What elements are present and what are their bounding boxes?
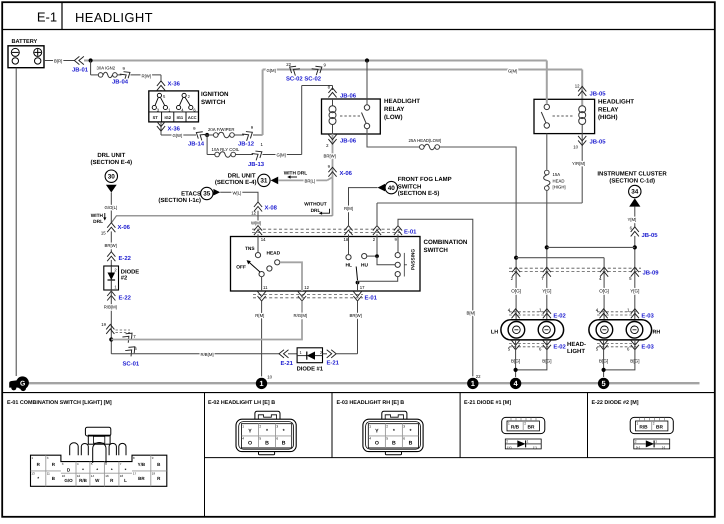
fuse 15A HEAD HIGH [544, 170, 566, 190]
svg-text:19: 19 [152, 472, 156, 476]
svg-text:RH: RH [653, 330, 661, 336]
connector E-22 upper [107, 252, 115, 262]
wire diode1 to pin17 column [336, 353, 358, 355]
wire R/B[M] horizontal diode row [111, 353, 280, 355]
svg-text:31: 31 [260, 178, 268, 185]
connector E-21 right [323, 353, 328, 355]
connector E-02 upper [508, 308, 567, 320]
svg-text:Y/R[M]: Y/R[M] [572, 161, 585, 166]
fuse 20A F/WIPER [205, 127, 245, 138]
svg-text:17: 17 [133, 472, 137, 476]
svg-text:DIODE #1: DIODE #1 [297, 365, 324, 372]
svg-text:*: * [37, 476, 39, 481]
svg-text:(HIGH): (HIGH) [598, 114, 618, 121]
connector E-01 top [252, 226, 417, 236]
svg-text:34: 34 [631, 189, 639, 196]
connector JB-05 upper [578, 86, 586, 96]
wire G[M] to low relay coil [263, 154, 302, 156]
E-01 connector pinout [31, 427, 167, 486]
wire battery to ground [15, 68, 17, 376]
svg-text:LH: LH [491, 330, 498, 336]
svg-text:B: B [282, 441, 286, 447]
connector SC-01 pin7 [122, 330, 135, 343]
svg-text:E-01: E-01 [365, 294, 378, 301]
svg-text:BR: BR [528, 424, 535, 430]
svg-text:Y[G]: Y[G] [630, 289, 639, 294]
svg-text:JB-05: JB-05 [590, 139, 607, 146]
svg-text:DRL: DRL [93, 219, 103, 225]
connector E-03 lower [596, 340, 655, 351]
svg-text:JB-01: JB-01 [72, 67, 89, 74]
connector X-36 upper [157, 81, 165, 91]
svg-text:JB-09: JB-09 [643, 270, 660, 277]
wire LOW relay to 25A fuse [367, 129, 419, 147]
wire battery output B[R] [44, 60, 75, 62]
svg-text:B: B [265, 441, 269, 447]
svg-text:O[G]: O[G] [511, 289, 521, 294]
headlight relay LOW [322, 98, 421, 134]
svg-text:HEAD: HEAD [553, 178, 565, 183]
svg-text:E-03: E-03 [641, 313, 654, 320]
svg-text:SWITCH: SWITCH [424, 247, 449, 254]
wire 25A fuse to headlight low beams [440, 147, 516, 320]
svg-text:10: 10 [267, 374, 272, 379]
svg-text:(LOW): (LOW) [384, 114, 403, 121]
svg-text:RELAY: RELAY [598, 106, 619, 113]
ignition switch [149, 91, 229, 122]
svg-text:1: 1 [637, 422, 639, 426]
headlight RH [589, 320, 660, 340]
svg-text:(SECTION E-5): (SECTION E-5) [398, 190, 440, 197]
svg-text:E-21 DIODE #1 [M]: E-21 DIODE #1 [M] [464, 400, 511, 406]
svg-text:HEADLIGHT: HEADLIGHT [598, 99, 634, 106]
headlight LH [491, 320, 564, 340]
svg-text:WITH DRL: WITH DRL [284, 170, 308, 176]
svg-text:[HIGH]: [HIGH] [553, 185, 566, 190]
connector E-02 lower [508, 340, 567, 351]
svg-text:SC-01: SC-01 [123, 361, 140, 368]
svg-text:E-22: E-22 [119, 294, 132, 301]
svg-text:E-22 DIODE #2 [M]: E-22 DIODE #2 [M] [592, 400, 639, 406]
svg-text:DRL UNIT: DRL UNIT [228, 173, 256, 180]
svg-text:1: 1 [508, 422, 510, 426]
svg-text:22: 22 [476, 374, 481, 379]
svg-text:6: 6 [403, 437, 405, 441]
fuse 10A RLY COIL [207, 135, 253, 157]
svg-text:19: 19 [101, 322, 106, 327]
fuse 30A IGN2 [91, 61, 122, 78]
svg-text:HEAD-: HEAD- [567, 341, 586, 348]
svg-text:L: L [124, 478, 127, 483]
headlight relay HIGH [534, 99, 634, 134]
ground point 4 [510, 378, 521, 389]
svg-text:E-21: E-21 [327, 360, 340, 367]
wire WITHOUT DRL jumper [111, 216, 332, 223]
svg-text:12: 12 [304, 285, 309, 290]
svg-text:HEADLIGHT: HEADLIGHT [384, 98, 420, 105]
svg-text:13: 13 [31, 472, 35, 476]
ground point 1 right [467, 378, 478, 389]
svg-text:WITH: WITH [91, 213, 104, 219]
svg-text:(SECTION E-4): (SECTION E-4) [215, 179, 257, 186]
svg-text:15: 15 [101, 230, 106, 235]
diode #1 [297, 348, 324, 373]
fuse 25A HEAD LOW [409, 138, 442, 150]
svg-text:HU: HU [361, 262, 368, 268]
svg-text:30: 30 [108, 173, 116, 180]
svg-text:2: 2 [635, 440, 637, 444]
svg-text:X-36: X-36 [168, 126, 181, 133]
svg-text:SWITCH: SWITCH [398, 183, 422, 190]
svg-text:BR: BR [656, 424, 663, 430]
svg-text:HL: HL [345, 262, 351, 268]
svg-text:E-03: E-03 [641, 344, 654, 351]
svg-text:G: G [20, 381, 25, 388]
svg-text:1: 1 [369, 424, 371, 428]
svg-text:HEADLIGHT: HEADLIGHT [75, 10, 153, 25]
svg-text:JB-14: JB-14 [188, 141, 205, 148]
connector SC-01 pin5 [125, 344, 138, 357]
svg-text:W: W [95, 478, 100, 483]
svg-text:1: 1 [471, 379, 475, 388]
svg-text:2: 2 [653, 422, 655, 426]
connector X-08 [254, 202, 262, 212]
wires B[G] RH to ground [599, 340, 640, 377]
svg-text:(SECTION E-4): (SECTION E-4) [90, 159, 132, 166]
wire bus row1 to HIGH relay switch [546, 61, 548, 105]
svg-text:Y/B: Y/B [138, 462, 146, 467]
svg-text:R/B: R/B [511, 424, 520, 430]
svg-text:JB-05: JB-05 [590, 91, 607, 98]
connector E-22 lower [107, 291, 115, 301]
bottom panel dividers [205, 393, 715, 517]
svg-text:COMBINATION: COMBINATION [424, 239, 468, 246]
svg-text:X-06: X-06 [118, 224, 131, 231]
svg-text:B[M]: B[M] [467, 311, 476, 316]
svg-text:4: 4 [369, 437, 371, 441]
svg-text:E-1: E-1 [37, 10, 57, 25]
wire BR[W] to diode 2 [110, 231, 112, 251]
svg-text:(-): (-) [662, 445, 665, 449]
junction Y to 15A [633, 245, 637, 249]
wire G[M] down to HIGH relay coil [581, 70, 583, 106]
WITH DRL annotation left [91, 213, 107, 225]
E-03 connector pinout [363, 411, 423, 455]
svg-text:40: 40 [388, 185, 396, 192]
svg-text:10: 10 [62, 474, 66, 478]
wire R/B[M] from diode 2 [110, 290, 112, 354]
svg-text:Y: Y [375, 429, 379, 435]
svg-text:5: 5 [386, 437, 388, 441]
svg-text:RELAY: RELAY [384, 106, 405, 113]
svg-text:Y: Y [248, 429, 252, 435]
svg-text:25A HEAD[LOW]: 25A HEAD[LOW] [409, 138, 442, 143]
svg-text:SC-02 SC-02: SC-02 SC-02 [286, 76, 322, 83]
svg-text:G[M]: G[M] [277, 153, 286, 158]
wire PASSING pin9 to ground [398, 219, 473, 376]
svg-text:3: 3 [276, 424, 278, 428]
svg-text:B[R]: B[R] [54, 58, 62, 63]
connector JB-06 lower [332, 134, 334, 216]
wire W[M] to combination switch [257, 211, 259, 226]
svg-text:*: * [82, 468, 84, 473]
svg-text:*: * [125, 468, 127, 473]
svg-text:BR: BR [138, 476, 145, 481]
junction R/G joins diode column [109, 337, 113, 341]
ground bus [16, 382, 700, 384]
wire WITH DRL to DRL unit 31 [327, 177, 332, 180]
svg-text:(+): (+) [507, 445, 511, 449]
connector SC-02 left [287, 64, 299, 76]
svg-text:(SECTION I-1c): (SECTION I-1c) [158, 197, 201, 204]
connector JB-01 [74, 56, 84, 64]
svg-text:X-06: X-06 [340, 170, 353, 177]
wire BR[W] pin17 to diode 1 [357, 301, 359, 354]
bottom panel separator [2, 392, 715, 394]
ground point 1 left [256, 378, 267, 389]
svg-text:DIODE: DIODE [121, 269, 139, 276]
wire down to RH low beam [603, 258, 605, 320]
svg-text:Y[M]: Y[M] [628, 217, 637, 222]
svg-text:1: 1 [259, 379, 263, 388]
svg-text:G[W]: G[W] [173, 133, 183, 138]
svg-text:R/B[M]: R/B[M] [201, 352, 214, 357]
connector SC-01 pin19 [106, 324, 114, 334]
svg-text:ETACS: ETACS [181, 191, 201, 198]
svg-text:E-21: E-21 [281, 360, 294, 367]
DRL unit 30 reference [90, 152, 132, 192]
svg-text:G[M]: G[M] [508, 69, 517, 74]
svg-text:O: O [375, 441, 379, 447]
title separator line [2, 29, 715, 31]
svg-text:E-02 HEADLIGHT LH [E] B: E-02 HEADLIGHT LH [E] B [208, 400, 275, 406]
svg-text:11: 11 [263, 285, 268, 290]
svg-text:Y[G]: Y[G] [542, 289, 551, 294]
svg-text:1: 1 [655, 440, 657, 444]
svg-text:E-01: E-01 [404, 229, 417, 236]
connector E-21 left [279, 350, 289, 358]
connector JB-06 upper [328, 88, 336, 98]
svg-text:E-02: E-02 [553, 313, 566, 320]
diode #2 [104, 266, 139, 290]
wire R[W] to ignition switch [131, 74, 162, 76]
svg-text:3: 3 [403, 424, 405, 428]
connector JB-05 lower [581, 134, 583, 203]
combination switch [231, 234, 468, 291]
svg-text:17: 17 [360, 285, 365, 290]
wire Y[M] cluster [634, 207, 636, 228]
wire R[M] fog to pin18 [349, 188, 378, 226]
svg-text:12: 12 [251, 211, 256, 216]
wire 15A fuse down to LH high beam [546, 191, 548, 320]
svg-text:R/B: R/B [79, 478, 88, 483]
svg-text:4: 4 [242, 437, 244, 441]
svg-text:X-36: X-36 [168, 81, 181, 88]
connector JB-12 [242, 129, 254, 141]
wire bus to LOW relay switch [365, 58, 369, 62]
junction at JB-14 [205, 133, 209, 137]
svg-text:IGNITION: IGNITION [201, 91, 229, 98]
svg-text:ACC: ACC [188, 115, 197, 120]
svg-text:O: O [248, 441, 252, 447]
svg-text:10: 10 [573, 145, 578, 150]
connector JB-06 cluster [631, 227, 639, 237]
DRL unit 31 reference [215, 173, 278, 187]
svg-text:JB-06: JB-06 [340, 138, 357, 145]
connector SC-02 right [312, 64, 324, 76]
svg-text:*: * [96, 468, 98, 473]
svg-text:JB-05: JB-05 [642, 232, 659, 239]
svg-text:E-03 HEADLIGHT RH [E] B: E-03 HEADLIGHT RH [E] B [337, 400, 405, 406]
svg-text:#2: #2 [121, 275, 127, 282]
E-02 connector pinout [236, 411, 296, 455]
wire HU pin2 to JB-05 [376, 203, 378, 226]
svg-text:2: 2 [386, 424, 388, 428]
ground symbol G [9, 376, 29, 391]
connector X-36 lower [160, 122, 162, 135]
svg-text:6: 6 [276, 437, 278, 441]
wire JB-12 up to SC-02 row [253, 134, 263, 136]
svg-text:R/B[M]: R/B[M] [104, 304, 117, 309]
svg-text:11: 11 [47, 472, 50, 476]
svg-text:(+): (+) [636, 445, 640, 449]
svg-text:E-01 COMBINATION SWITCH [LIGHT: E-01 COMBINATION SWITCH [LIGHT] [M] [7, 400, 112, 406]
svg-text:16: 16 [105, 474, 109, 478]
connector JB-14 [194, 129, 206, 141]
bus row2 G[M] [263, 69, 583, 71]
E-22 connector pinout [630, 417, 673, 449]
svg-text:LIGHT: LIGHT [567, 348, 585, 355]
wire G/O from DRL unit [110, 193, 112, 224]
svg-text:(-): (-) [533, 445, 536, 449]
svg-text:R[M]: R[M] [344, 206, 353, 211]
svg-text:BR[L]: BR[L] [305, 178, 316, 183]
svg-text:1: 1 [527, 440, 529, 444]
svg-text:14: 14 [91, 474, 95, 478]
svg-text:R[M]: R[M] [255, 313, 264, 318]
svg-text:(SECTION C-1d): (SECTION C-1d) [609, 178, 655, 185]
front fog lamp switch reference [378, 176, 452, 197]
svg-text:BR[W]: BR[W] [350, 313, 362, 318]
wires B[G] LH to ground [511, 340, 552, 377]
wire HIGH relay switch to 15A fuse [546, 134, 548, 170]
svg-text:B: B [409, 441, 413, 447]
svg-text:IG1: IG1 [177, 115, 184, 120]
svg-text:E-02: E-02 [553, 344, 566, 351]
svg-text:WITHOUT: WITHOUT [304, 202, 326, 208]
connector X-06 pin15 [107, 223, 115, 233]
svg-text:INSTRUMENT CLUSTER: INSTRUMENT CLUSTER [597, 170, 667, 177]
wire R/G[M] pin12 to SC-01 [111, 301, 302, 340]
title divider [61, 2, 63, 29]
connector JB-13 [252, 148, 264, 160]
ETACS reference [158, 187, 220, 204]
svg-text:SWITCH: SWITCH [201, 99, 226, 106]
svg-text:OFF: OFF [236, 265, 246, 271]
svg-text:TNS: TNS [245, 246, 255, 252]
wire Y[M] down to RH high beam [634, 236, 636, 320]
wire G[W] from ignition switch [161, 134, 196, 136]
svg-text:15A: 15A [553, 172, 561, 177]
svg-text:R/B: R/B [639, 424, 648, 430]
svg-text:2: 2 [506, 440, 508, 444]
svg-text:BATTERY: BATTERY [12, 39, 38, 45]
svg-text:30A IGN2: 30A IGN2 [97, 65, 116, 70]
svg-text:E-22: E-22 [119, 255, 132, 262]
connector E-01 bottom [253, 292, 378, 302]
svg-text:5: 5 [602, 379, 606, 388]
svg-text:B: B [392, 441, 396, 447]
svg-text:G[M]: G[M] [267, 68, 276, 73]
ground point 5 [598, 378, 609, 389]
svg-text:JB-13: JB-13 [248, 161, 265, 168]
svg-text:BR[W]: BR[W] [105, 243, 117, 248]
E-21 connector pinout [502, 417, 545, 449]
junction after JB-01 [89, 58, 93, 62]
svg-text:HEAD: HEAD [267, 251, 281, 257]
instrument cluster reference [597, 170, 667, 206]
svg-text:18: 18 [120, 474, 124, 478]
svg-text:5: 5 [259, 437, 261, 441]
svg-text:12: 12 [77, 474, 81, 478]
svg-text:IG2: IG2 [164, 115, 171, 120]
battery [8, 39, 44, 68]
svg-text:20A F/WIPER: 20A F/WIPER [208, 127, 235, 132]
wire R[M] pin11 to ground 1 [261, 301, 263, 377]
svg-text:BR[W]: BR[W] [324, 153, 336, 158]
svg-text:G/O[L]: G/O[L] [105, 205, 118, 210]
junction 25A feed split [514, 256, 518, 260]
svg-text:1: 1 [242, 424, 244, 428]
svg-text:12: 12 [575, 84, 580, 89]
svg-text:R[W]: R[W] [142, 74, 152, 79]
svg-text:2: 2 [259, 424, 261, 428]
svg-text:X-08: X-08 [265, 205, 278, 212]
svg-text:W[M]: W[M] [251, 220, 261, 225]
svg-text:2: 2 [524, 422, 526, 426]
svg-text:ST: ST [153, 115, 159, 120]
connector JB-09 [509, 267, 659, 281]
svg-text:14: 14 [261, 237, 266, 242]
svg-text:JB-12: JB-12 [238, 141, 255, 148]
svg-text:35: 35 [203, 191, 211, 198]
svg-text:*: * [111, 468, 113, 473]
svg-text:DRL UNIT: DRL UNIT [97, 152, 125, 159]
svg-text:FRONT FOG LAMP: FRONT FOG LAMP [398, 176, 452, 183]
connector E-03 upper [596, 308, 655, 320]
svg-text:DRL: DRL [311, 208, 321, 214]
svg-text:22: 22 [286, 62, 291, 67]
svg-text:10A RLY COIL: 10A RLY COIL [212, 147, 240, 152]
wire W from ETACS to X-08 [220, 192, 258, 202]
svg-text:W[L]: W[L] [233, 190, 242, 195]
svg-text:O[G]: O[G] [599, 289, 609, 294]
svg-text:PASSING: PASSING [411, 249, 417, 271]
WITHOUT DRL annotation [304, 202, 329, 215]
svg-text:JB-04: JB-04 [112, 79, 129, 86]
svg-text:R/G[M]: R/G[M] [294, 313, 308, 318]
connector X-06 pin9 [328, 167, 336, 177]
connector JB-04 [120, 69, 132, 81]
svg-text:G/O: G/O [64, 478, 73, 483]
main bus row1 [84, 60, 547, 62]
